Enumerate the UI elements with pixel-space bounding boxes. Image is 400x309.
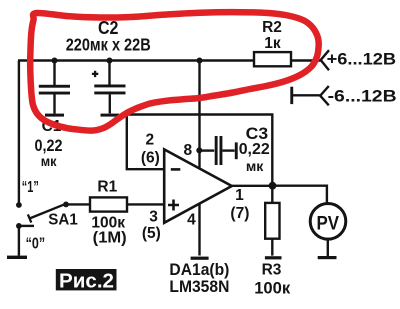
- wire R3 to ground: [271, 239, 273, 256]
- connector +6...12V: [321, 50, 329, 70]
- svg-text:+6...12В: +6...12В: [327, 50, 397, 69]
- ground chassis bar under C2: [101, 114, 120, 117]
- ground chassis bar under pin 4: [191, 257, 209, 260]
- svg-text:(6): (6): [141, 150, 160, 167]
- capacitor C1: [39, 61, 70, 114]
- svg-text:0,22: 0,22: [35, 137, 63, 155]
- node junction dot C2/top rail: [107, 58, 113, 64]
- wire -6 line: [292, 94, 321, 96]
- svg-text:Рис.2: Рис.2: [59, 270, 114, 293]
- resistor R2: [254, 52, 291, 66]
- svg-text:1: 1: [235, 187, 244, 204]
- svg-text:мк: мк: [246, 159, 264, 174]
- wire contact 0 to ground: [18, 226, 20, 256]
- svg-text:R2: R2: [262, 19, 282, 36]
- wire top supply rail: [18, 59, 321, 61]
- svg-text:-6...12В: -6...12В: [328, 86, 397, 105]
- svg-text:LM358N: LM358N: [169, 278, 229, 296]
- switch SA1 contact 0 dot: [16, 223, 22, 229]
- node output junction dot: [269, 182, 277, 190]
- wire SA1 common to R1: [66, 203, 90, 205]
- wire pin 4 to ground: [198, 204, 200, 256]
- svg-text:R1: R1: [97, 179, 117, 196]
- ground chassis bar bottom left: [7, 256, 27, 259]
- wire op-amp output: [232, 185, 272, 187]
- ground chassis bar on C3 right: [235, 142, 238, 159]
- node junction dot C1/top rail: [52, 58, 58, 64]
- resistor R3: [265, 203, 279, 239]
- svg-text:PV: PV: [316, 213, 339, 235]
- svg-text:1к: 1к: [264, 35, 281, 52]
- svg-text:3: 3: [149, 208, 158, 225]
- wire output to PV branch: [272, 186, 327, 204]
- op-amp minus input sign: [171, 168, 181, 171]
- op-amp plus input sign: [168, 200, 179, 211]
- svg-text:(5): (5): [142, 225, 161, 242]
- wire output to R3: [271, 186, 273, 203]
- ground chassis bar under PV: [318, 256, 337, 259]
- capacitor C2 (electrolytic, + mark): [92, 61, 126, 114]
- node junction dot C3/pin8 wire: [196, 147, 202, 153]
- capacitor C3: [200, 136, 235, 165]
- svg-text:R3: R3: [262, 261, 282, 278]
- node junction dot pin8 wire/top rail: [197, 58, 203, 64]
- switch SA1 contact 0 stub: [19, 225, 34, 227]
- wire left vertical (supply to SA1 contact 1): [18, 61, 20, 206]
- ground chassis bar on -6 line: [290, 87, 293, 104]
- ground chassis bar under R3: [265, 256, 282, 259]
- wire PV to ground: [327, 239, 329, 256]
- svg-text:2: 2: [145, 132, 154, 149]
- svg-text:SA1: SA1: [48, 211, 78, 228]
- svg-text:8: 8: [183, 142, 192, 159]
- red hand-drawn annotation loop: [30, 12, 319, 130]
- resistor R1: [90, 197, 127, 211]
- svg-text:(7): (7): [230, 205, 249, 222]
- svg-text:“1”: “1”: [22, 179, 39, 196]
- wire feedback loop (output to inverting input): [127, 115, 272, 186]
- ground chassis bar under C1: [45, 114, 64, 117]
- voltmeter PV: [310, 204, 346, 240]
- wire pin8 vertical (V+ to op-amp): [198, 61, 200, 168]
- svg-text:220мк x 22В: 220мк x 22В: [66, 34, 151, 54]
- svg-text:мк: мк: [41, 154, 57, 169]
- svg-text:0,22: 0,22: [239, 141, 270, 158]
- switch SA1 contact 1 dot: [16, 202, 22, 208]
- wire R1 to pin 3: [127, 203, 164, 205]
- connector -6...12V: [320, 86, 329, 105]
- svg-text:4: 4: [187, 212, 196, 229]
- figure label Ris.2 black box: [56, 269, 117, 293]
- svg-text:100к: 100к: [254, 278, 290, 297]
- svg-text:DA1a(b): DA1a(b): [169, 261, 229, 279]
- switch SA1 common node dot: [63, 202, 69, 208]
- svg-text:“0”: “0”: [26, 235, 46, 252]
- svg-text:(1M): (1M): [93, 230, 127, 247]
- op-amp U1 DA1 triangle: [164, 149, 232, 222]
- switch SA1 arm: [28, 204, 66, 223]
